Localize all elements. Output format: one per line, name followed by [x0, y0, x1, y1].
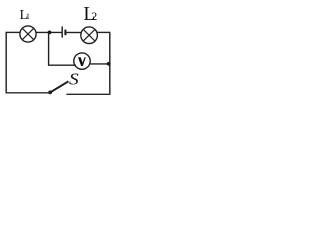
- wire right vertical frame: [109, 32, 111, 94]
- wire L2 to top-right corner: [97, 31, 110, 33]
- wire left vertical frame: [5, 32, 7, 93]
- svg-text:1: 1: [26, 11, 30, 21]
- voltmeter letter V: [78, 57, 86, 66]
- node junction dot at voltmeter tap: [48, 31, 52, 35]
- wire bottom-left segment: [6, 92, 50, 94]
- wire voltmeter branch horizontal to meter: [48, 64, 76, 66]
- battery cell: short thick plate: [64, 30, 66, 36]
- battery cell: long plate: [61, 26, 63, 37]
- wire top-left to L1: [6, 31, 21, 33]
- wire L1 to battery: [36, 31, 61, 33]
- switch S lever: [51, 81, 69, 92]
- node junction dot on right frame: [107, 62, 111, 66]
- svg-text:2: 2: [91, 9, 97, 23]
- svg-text:S: S: [69, 70, 79, 88]
- wire bottom-right segment: [66, 93, 110, 95]
- voltmeter U1: [74, 53, 90, 69]
- switch pivot dot: [48, 91, 52, 95]
- wire voltmeter branch vertical: [48, 32, 50, 65]
- wire voltmeter to right frame: [90, 63, 109, 65]
- lamp L2: [81, 27, 98, 44]
- wire battery to L2: [66, 32, 81, 34]
- lamp L1: [20, 26, 36, 42]
